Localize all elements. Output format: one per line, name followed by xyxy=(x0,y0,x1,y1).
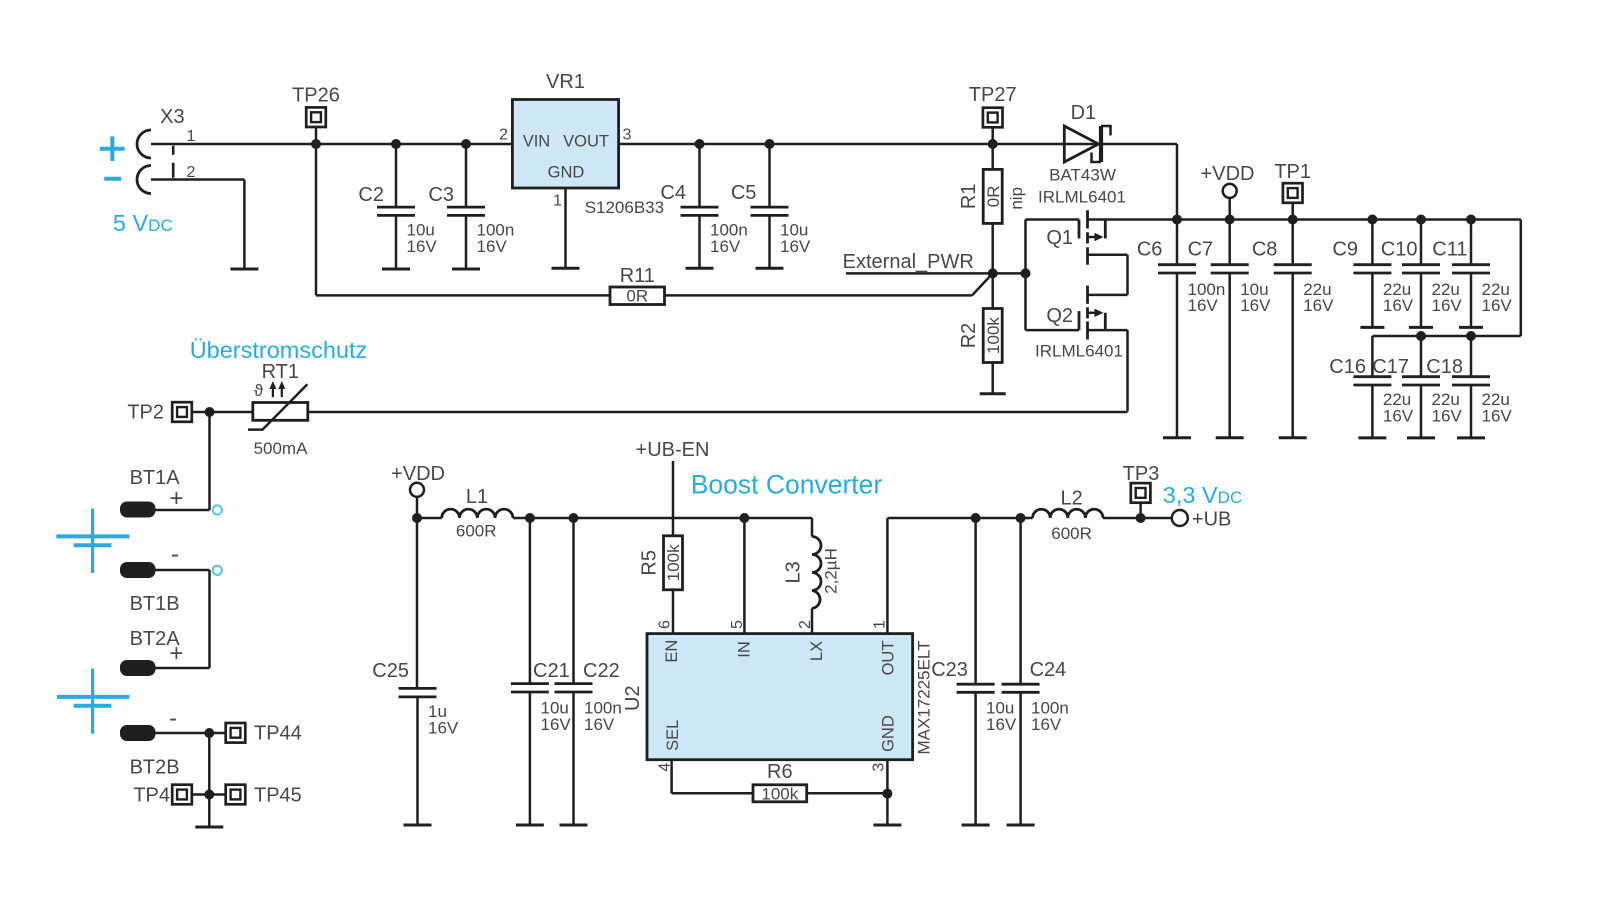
wire R1 to node xyxy=(991,224,994,274)
wire node to gates xyxy=(993,272,1026,275)
label D1 xyxy=(1071,102,1097,124)
label nip xyxy=(1007,187,1026,210)
battery contact BT2A xyxy=(120,660,156,676)
value C24 xyxy=(1031,699,1069,734)
value 600R of L2 xyxy=(1051,524,1092,543)
svg-text:600R: 600R xyxy=(456,522,497,541)
resistor R1 xyxy=(983,169,1002,223)
label C21 xyxy=(533,660,570,682)
svg-text:TP2: TP2 xyxy=(127,402,164,424)
junction External_PWR xyxy=(988,268,998,278)
power symbol +VDD xyxy=(1223,184,1237,220)
pin name SEL xyxy=(664,720,682,751)
svg-text:TP1: TP1 xyxy=(1274,161,1311,183)
capacitor C9 xyxy=(1353,220,1391,328)
label X3 xyxy=(160,106,184,128)
label TP27 xyxy=(969,84,1017,106)
svg-text:16V: 16V xyxy=(1240,296,1271,315)
svg-text:GND: GND xyxy=(548,164,585,182)
value 0R of R11 xyxy=(626,286,648,305)
junction TP45 node xyxy=(204,790,214,800)
value C4 xyxy=(710,221,748,257)
pin number 2 xyxy=(797,620,814,629)
svg-text:16V: 16V xyxy=(1031,715,1062,734)
capacitor C23 xyxy=(957,518,995,825)
svg-text:L2: L2 xyxy=(1060,487,1082,509)
pin number 4 xyxy=(656,763,673,772)
svg-text:MAX17225ELT: MAX17225ELT xyxy=(915,640,934,754)
wire R5 to EN pin xyxy=(672,589,675,634)
label TP45 xyxy=(254,784,302,806)
pin number 1 of X3 xyxy=(187,128,196,145)
net label +UB-EN xyxy=(636,439,710,461)
wire X3 pin2 down xyxy=(151,180,244,270)
junction gate wire xyxy=(1021,268,1031,278)
minus mark BT2B xyxy=(169,705,177,732)
label C2 xyxy=(358,184,384,206)
capacitor C2 xyxy=(377,139,415,269)
junction rail C11 xyxy=(1466,215,1476,225)
svg-text:5 VDC: 5 VDC xyxy=(113,210,173,236)
wire L2 to +UB xyxy=(1103,517,1172,520)
value 100k of R5 xyxy=(664,544,683,581)
diode D1 BAT43W xyxy=(1064,126,1110,162)
svg-text:+: + xyxy=(169,640,183,667)
pin name EN xyxy=(663,640,681,663)
junction VDD boost xyxy=(412,513,422,523)
junction C22 xyxy=(569,513,579,523)
svg-text:C3: C3 xyxy=(428,184,454,206)
svg-text:16V: 16V xyxy=(1432,296,1463,315)
svg-text:ϑ: ϑ xyxy=(254,381,264,400)
capacitor C24 xyxy=(1002,518,1040,825)
label Boost Converter xyxy=(691,470,883,500)
svg-text:500mA: 500mA xyxy=(254,439,309,458)
svg-text:0R: 0R xyxy=(626,286,648,305)
pin name OUT xyxy=(879,641,897,676)
inductor L1 xyxy=(442,509,513,518)
theta symbol xyxy=(254,381,264,400)
svg-text:1: 1 xyxy=(187,128,196,145)
ground VR1 xyxy=(552,267,580,270)
svg-text:VIN: VIN xyxy=(523,133,551,151)
battery contact BT2B xyxy=(120,725,156,741)
svg-text:SEL: SEL xyxy=(664,720,682,751)
capacitor C4 xyxy=(681,139,719,268)
value MAX17225ELT xyxy=(915,640,934,754)
svg-text:TP44: TP44 xyxy=(254,723,302,745)
label Q2 xyxy=(1046,305,1073,327)
label C7 xyxy=(1188,239,1214,261)
label C22 xyxy=(583,660,620,682)
wire TP2 down to BT1A xyxy=(156,412,210,510)
test point TP4 xyxy=(172,785,209,805)
value C22 xyxy=(584,699,622,734)
pin name GND xyxy=(879,715,897,752)
svg-text:C24: C24 xyxy=(1030,659,1067,681)
svg-text:RT1: RT1 xyxy=(262,361,299,383)
svg-text:Boost Converter: Boost Converter xyxy=(691,470,883,500)
svg-text:16V: 16V xyxy=(1482,296,1513,315)
pin name LX xyxy=(808,641,826,661)
label TP44 xyxy=(254,723,302,745)
svg-text:16V: 16V xyxy=(584,715,615,734)
label R2 xyxy=(958,323,980,349)
svg-text:R6: R6 xyxy=(767,761,793,783)
capacitor C18 xyxy=(1452,336,1490,438)
label C5 xyxy=(731,182,757,204)
svg-text:TP4: TP4 xyxy=(133,784,170,806)
wire R11 to External_PWR node xyxy=(665,273,993,295)
svg-text:OUT: OUT xyxy=(879,641,897,676)
capacitor C10 xyxy=(1402,220,1440,328)
label BT1A xyxy=(130,467,181,489)
net label +UB xyxy=(1192,508,1231,530)
plus mark BT2A xyxy=(169,640,183,667)
junction BT2B xyxy=(204,728,214,738)
svg-text:LX: LX xyxy=(808,641,826,661)
net label External_PWR xyxy=(843,251,974,273)
svg-text:16V: 16V xyxy=(1383,296,1414,315)
value C7 xyxy=(1240,280,1271,315)
connector X3 pin 2 socket xyxy=(137,166,151,194)
label TP2 xyxy=(127,402,164,424)
label Q1 xyxy=(1046,227,1073,249)
plus polarity mark xyxy=(100,136,125,161)
value C11 xyxy=(1482,280,1513,315)
label 5 VDC xyxy=(113,210,173,236)
transistor Q1 IRLML6401 xyxy=(1026,210,1128,295)
label 3,3 VDC xyxy=(1163,482,1242,508)
svg-text:L1: L1 xyxy=(466,486,488,508)
wire gate bus xyxy=(1024,220,1027,331)
pin number 5 xyxy=(729,620,746,629)
svg-text:16V: 16V xyxy=(710,237,741,256)
label RT1 xyxy=(262,361,299,383)
svg-text:0R: 0R xyxy=(984,186,1003,208)
capacitor C5 xyxy=(751,139,789,268)
value 100k of R6 xyxy=(761,785,798,804)
svg-text:16V: 16V xyxy=(1303,296,1334,315)
wire VDD rail xyxy=(1088,220,1521,337)
svg-text:16V: 16V xyxy=(1482,407,1513,426)
value C17 xyxy=(1432,390,1463,426)
wire L1 to L3 xyxy=(513,517,812,520)
wire VR1 GND pin xyxy=(564,188,567,268)
capacitor C22 xyxy=(555,518,593,825)
svg-text:16V: 16V xyxy=(780,237,811,256)
svg-text:100k: 100k xyxy=(984,317,1003,354)
pin number 3 of VR1 xyxy=(623,127,632,144)
svg-text:L3: L3 xyxy=(782,561,804,583)
capacitor C25 xyxy=(399,518,437,825)
svg-text:TP27: TP27 xyxy=(969,84,1017,106)
svg-text:EN: EN xyxy=(663,640,681,663)
plus mark BT1A xyxy=(169,485,183,512)
transistor Q2 IRLML6401 xyxy=(1026,286,1128,412)
wire R2 to ground xyxy=(991,363,994,394)
label R5 xyxy=(638,550,660,576)
pin name VIN xyxy=(523,133,551,151)
wire TP2 to RT1 xyxy=(210,411,253,414)
regulator VR1 body xyxy=(512,100,618,189)
svg-text:3,3 VDC: 3,3 VDC xyxy=(1163,482,1242,508)
value C10 xyxy=(1432,280,1463,315)
wire X3 pin1 to rail xyxy=(151,143,512,146)
svg-text:R1: R1 xyxy=(958,184,980,210)
pin number 3 xyxy=(870,763,887,772)
svg-text:1: 1 xyxy=(553,192,562,209)
wire node to R2 xyxy=(991,273,994,308)
test point TP27 xyxy=(983,108,1003,144)
pin number 1 of VR1 xyxy=(553,192,562,209)
wire R6 to GND pin xyxy=(807,792,888,795)
svg-text:TP45: TP45 xyxy=(254,784,302,806)
label L1 xyxy=(466,486,488,508)
svg-text:+VDD: +VDD xyxy=(1201,163,1255,185)
value C8 xyxy=(1303,280,1334,315)
value C9 xyxy=(1383,280,1414,315)
junction TP26 xyxy=(311,139,321,149)
svg-text:16V: 16V xyxy=(541,715,572,734)
svg-text:TP3: TP3 xyxy=(1123,463,1160,485)
junction C23 xyxy=(971,513,981,523)
value C3 xyxy=(477,221,515,257)
wire SEL pin to R6 xyxy=(672,760,753,794)
label C18 xyxy=(1426,356,1463,378)
pin name GND xyxy=(548,164,585,182)
value 500mA xyxy=(254,439,309,458)
net label +VDD boost xyxy=(391,463,445,485)
svg-text:C11: C11 xyxy=(1432,239,1467,261)
resistor R5 xyxy=(664,536,683,590)
wire IN pin xyxy=(743,518,746,634)
wire to battery ground xyxy=(208,795,211,828)
junction C24 xyxy=(1016,513,1026,523)
svg-text:+: + xyxy=(169,485,183,512)
svg-text:C5: C5 xyxy=(731,182,757,204)
svg-text:C6: C6 xyxy=(1137,239,1163,261)
svg-text:VR1: VR1 xyxy=(546,71,585,93)
capacitor C17 xyxy=(1402,336,1440,438)
wire TP27 to R1 xyxy=(991,144,994,169)
value S1206B33 xyxy=(585,198,664,217)
svg-text:nip: nip xyxy=(1007,187,1026,210)
svg-text:5: 5 xyxy=(729,620,746,629)
pin name IN xyxy=(736,641,754,658)
wire down to TP45 node xyxy=(208,733,211,795)
label C25 xyxy=(372,660,409,682)
battery contact BT1A xyxy=(120,502,156,518)
svg-text:GND: GND xyxy=(879,715,897,752)
junction C21 xyxy=(525,513,535,523)
wire BT2B to TP44 xyxy=(156,732,227,735)
wire +UB-EN to R5 xyxy=(672,461,675,537)
junction rail C8 xyxy=(1288,215,1298,225)
pin symbol +UB xyxy=(1172,510,1188,526)
wire BT1B to BT2A xyxy=(156,570,210,668)
value C6 xyxy=(1188,280,1226,315)
value IRLML6401 of Q1 xyxy=(1038,188,1126,207)
svg-text:-: - xyxy=(169,705,177,732)
svg-text:R11: R11 xyxy=(620,265,655,287)
svg-text:C9: C9 xyxy=(1332,239,1358,261)
svg-text:BAT43W: BAT43W xyxy=(1049,166,1116,185)
wire TP26 down to R11 xyxy=(316,144,610,295)
capacitor C3 xyxy=(447,139,485,269)
wire RT1 to Q2 source xyxy=(308,411,1128,414)
value C23 xyxy=(986,699,1017,734)
value C16 xyxy=(1383,390,1414,426)
svg-text:S1206B33: S1206B33 xyxy=(585,198,664,217)
label BT2B xyxy=(130,756,180,778)
label C11 xyxy=(1432,239,1467,261)
svg-text:C16: C16 xyxy=(1329,356,1366,378)
svg-text:U2: U2 xyxy=(622,685,644,711)
connector circle BT1B xyxy=(213,566,222,575)
label C16 xyxy=(1329,356,1366,378)
battery cell symbol 2 xyxy=(57,669,129,734)
pin number 2 of X3 xyxy=(187,164,196,181)
value C2 xyxy=(407,221,438,257)
svg-text:C21: C21 xyxy=(533,660,570,682)
label Uberstromschutz xyxy=(190,337,368,363)
pin number 6 xyxy=(656,620,673,629)
arrows up of RT1 xyxy=(269,381,285,397)
label L2 xyxy=(1060,487,1082,509)
connector X3 gang dashed line xyxy=(172,146,175,178)
test point TP44 xyxy=(226,723,246,743)
ground X3 pin2 xyxy=(230,268,258,271)
value C18 xyxy=(1482,390,1513,426)
svg-text:VOUT: VOUT xyxy=(563,133,609,151)
pin number 1 xyxy=(871,620,888,629)
capacitor C8 xyxy=(1274,220,1312,438)
value C21 xyxy=(541,699,572,734)
wire VR1 VOUT to C4 xyxy=(619,143,1103,146)
inductor L3 xyxy=(812,518,821,634)
connector circle BT1A xyxy=(213,505,222,514)
label C6 xyxy=(1137,239,1163,261)
junction rail C7 xyxy=(1225,215,1235,225)
junction rail C9 xyxy=(1367,215,1377,225)
label TP1 xyxy=(1274,161,1311,183)
svg-text:16V: 16V xyxy=(407,237,438,256)
capacitor C6 xyxy=(1158,220,1196,438)
junction GND pin xyxy=(882,789,892,799)
power symbol +VDD boost xyxy=(410,483,424,518)
svg-text:16V: 16V xyxy=(986,715,1017,734)
label TP26 xyxy=(292,85,340,107)
test point TP2 xyxy=(172,402,209,422)
label TP4 xyxy=(133,784,170,806)
value BAT43W xyxy=(1049,166,1116,185)
svg-text:C4: C4 xyxy=(660,182,686,204)
svg-text:2,2µH: 2,2µH xyxy=(822,548,841,594)
svg-text:C25: C25 xyxy=(372,660,409,682)
svg-text:C8: C8 xyxy=(1252,239,1278,261)
svg-text:2: 2 xyxy=(499,127,508,144)
wire OUT rail xyxy=(887,517,1032,520)
svg-text:3: 3 xyxy=(870,763,887,772)
junction TP3 xyxy=(1136,513,1146,523)
svg-text:IN: IN xyxy=(736,641,754,658)
capacitor C16 xyxy=(1353,336,1391,438)
svg-text:Q1: Q1 xyxy=(1046,227,1073,249)
test point TP1 xyxy=(1283,183,1303,219)
svg-text:C10: C10 xyxy=(1381,239,1418,261)
svg-text:16V: 16V xyxy=(1432,407,1463,426)
svg-text:1: 1 xyxy=(871,620,888,629)
label TP3 xyxy=(1123,463,1160,485)
wire D1 cathode to VDD rail xyxy=(1103,144,1177,220)
resistor R11 xyxy=(610,287,665,305)
svg-text:100k: 100k xyxy=(664,544,683,581)
svg-text:IRLML6401: IRLML6401 xyxy=(1035,342,1123,361)
svg-text:R2: R2 xyxy=(958,323,980,349)
test point TP45 xyxy=(209,785,245,805)
battery contact BT1B xyxy=(120,562,156,578)
test point TP3 xyxy=(1131,483,1151,518)
svg-text:IRLML6401: IRLML6401 xyxy=(1038,188,1126,207)
battery cell symbol 1 xyxy=(56,509,129,573)
capacitor C7 xyxy=(1211,220,1249,438)
value 2,2uH of L3 xyxy=(822,548,841,594)
junction TP2 xyxy=(205,407,215,417)
label U2 xyxy=(622,685,644,711)
svg-text:16V: 16V xyxy=(1383,407,1414,426)
capacitor C21 xyxy=(511,518,549,825)
label C24 xyxy=(1030,659,1067,681)
wire External_PWR underline xyxy=(846,272,993,275)
svg-text:C2: C2 xyxy=(358,184,384,206)
inductor L2 xyxy=(1033,509,1103,518)
junction TP27 xyxy=(988,139,998,149)
label C17 xyxy=(1372,356,1409,378)
svg-text:External_PWR: External_PWR xyxy=(843,251,974,273)
connector X3 pin 1 socket xyxy=(137,130,151,158)
label C9 xyxy=(1332,239,1358,261)
svg-text:-: - xyxy=(171,541,179,568)
svg-text:100k: 100k xyxy=(761,785,798,804)
label C23 xyxy=(931,659,968,681)
junction rail C6 xyxy=(1172,215,1182,225)
IC U2 body xyxy=(647,634,913,760)
junction bus C18 xyxy=(1466,331,1476,341)
svg-text:Q2: Q2 xyxy=(1046,305,1073,327)
test point TP26 xyxy=(306,107,326,144)
svg-text:D1: D1 xyxy=(1071,102,1097,124)
junction bus C17 xyxy=(1416,331,1426,341)
svg-text:16V: 16V xyxy=(428,719,459,738)
svg-text:16V: 16V xyxy=(477,237,508,256)
svg-text:TP26: TP26 xyxy=(292,85,340,107)
label C4 xyxy=(660,182,686,204)
svg-text:BT2B: BT2B xyxy=(130,756,180,778)
svg-text:R5: R5 xyxy=(638,550,660,576)
svg-text:C7: C7 xyxy=(1188,239,1214,261)
minus mark BT1B xyxy=(171,541,179,568)
wire OUT pin xyxy=(886,518,889,634)
value C25 xyxy=(428,702,459,738)
capacitor C11 xyxy=(1452,220,1490,328)
ground battery xyxy=(195,826,223,829)
value C5 xyxy=(780,221,811,257)
label R11 xyxy=(620,265,655,287)
label BT1B xyxy=(130,593,180,615)
resistor R2 xyxy=(983,309,1002,363)
svg-text:Überstromschutz: Überstromschutz xyxy=(190,337,368,363)
